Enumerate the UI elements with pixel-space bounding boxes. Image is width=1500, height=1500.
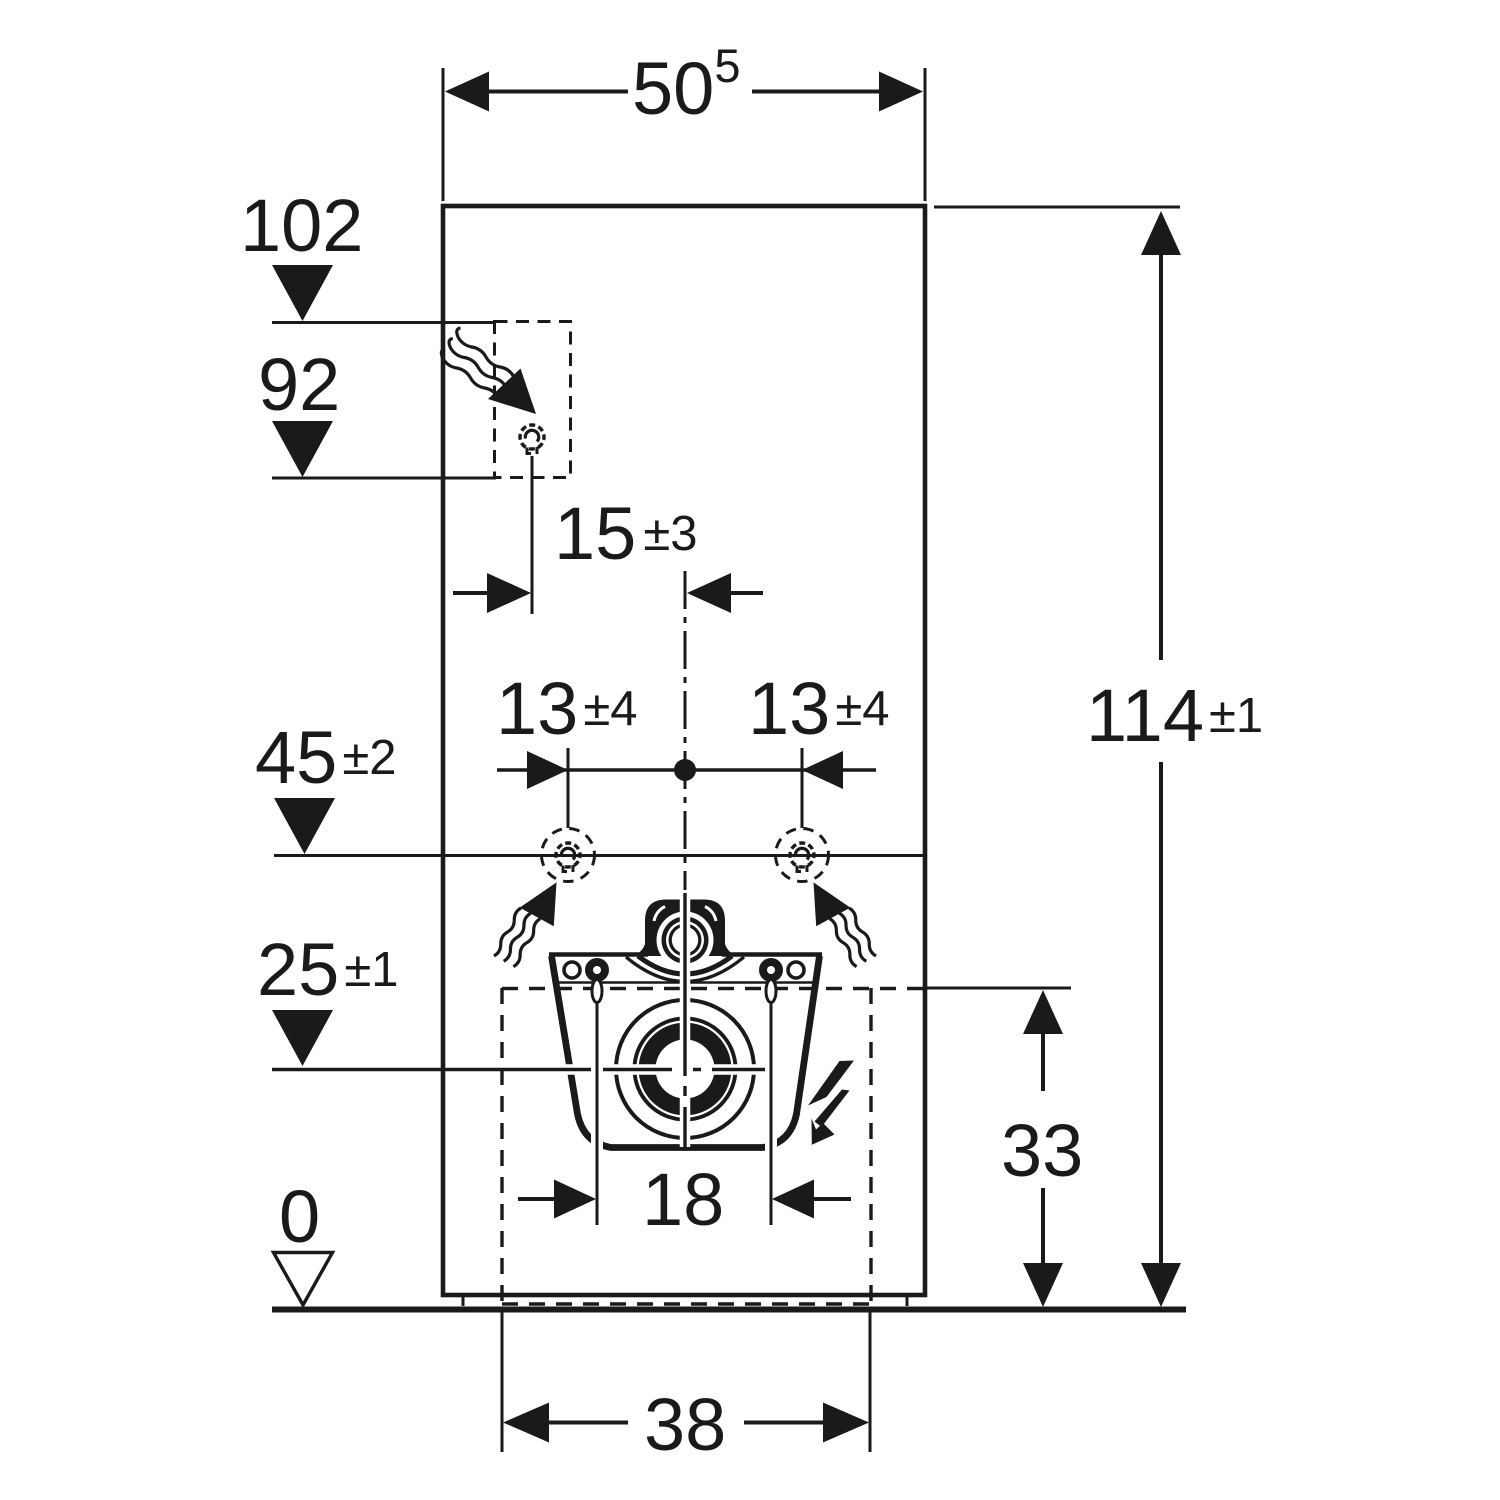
tick 18 right casing bbox=[765, 1002, 777, 1225]
dimension 33 arrow bottom bbox=[1023, 1263, 1063, 1307]
crosshair horizontal (25 level line) bbox=[272, 1068, 770, 1071]
toilet bracket top edge left bbox=[549, 952, 648, 957]
big dashed box top edge bbox=[502, 987, 925, 990]
flush pipe hat highlight left bbox=[654, 907, 665, 922]
valve icon right bbox=[790, 843, 814, 872]
dimension 18 arrow left bbox=[554, 1180, 596, 1219]
dimension 15 line left tail bbox=[453, 591, 489, 595]
dimension 114 extension line top bbox=[934, 206, 1180, 209]
dimension 38 arrow left bbox=[503, 1403, 549, 1443]
big dashed box bottom edge bbox=[502, 1302, 871, 1305]
drain ring inner white line bbox=[638, 1022, 733, 1117]
svg-text:33: 33 bbox=[1001, 1109, 1083, 1192]
dimension 114 line bbox=[1159, 253, 1163, 1265]
water squiggles lower right bbox=[849, 908, 876, 956]
tick 18 left casing bbox=[591, 1002, 603, 1225]
drain outer circle bbox=[616, 1000, 754, 1138]
toilet bracket top edge right bbox=[722, 952, 822, 957]
dimension 18 arrow right bbox=[772, 1180, 814, 1219]
water arrow lower left bbox=[520, 882, 557, 926]
hanger loop right bbox=[766, 980, 776, 1003]
level 45 marker triangle bbox=[274, 798, 335, 854]
crosshair vertical casing bbox=[680, 893, 691, 1147]
level 92 marker triangle bbox=[272, 421, 333, 477]
dimension 15 arrow right bbox=[687, 573, 731, 613]
centerline (dash-dot) bbox=[684, 571, 687, 890]
drain center white bbox=[656, 1040, 715, 1099]
water connector dashed circle right bbox=[776, 829, 829, 882]
dimension 50.5 extension line right bbox=[924, 68, 927, 201]
water arrow lower right bbox=[814, 882, 851, 926]
dimension 38 extension line left bbox=[501, 1312, 504, 1452]
svg-text:38: 38 bbox=[644, 1383, 726, 1466]
flush pipe hat highlight right bbox=[705, 907, 716, 922]
toilet bracket inner line bbox=[553, 981, 816, 984]
level 102 marker triangle bbox=[272, 265, 333, 321]
mounting hole donut right bbox=[759, 958, 783, 982]
module plinth right bbox=[906, 1295, 909, 1306]
dimension 13 tick right bbox=[801, 748, 804, 828]
dimension 50.5 line bbox=[489, 90, 879, 94]
dimension 15 line right tail bbox=[731, 591, 763, 595]
dimension 50.5 extension line left bbox=[442, 68, 445, 201]
svg-text:18: 18 bbox=[642, 1158, 724, 1241]
dimension 38 arrow right bbox=[823, 1403, 869, 1443]
top water supply dashed box bbox=[495, 322, 571, 478]
dimension 33 extension line bbox=[925, 987, 1071, 990]
dimension 13 arrow right bbox=[802, 751, 843, 789]
mounting hole open circle far right bbox=[788, 962, 804, 978]
hat flare right bbox=[725, 944, 738, 957]
top water supply drop line bbox=[531, 456, 534, 614]
dimension 114 arrow bottom bbox=[1141, 1263, 1181, 1307]
ground line bbox=[272, 1307, 1186, 1313]
big dashed box left edge bbox=[500, 988, 503, 1306]
dimension 38 extension line right bbox=[869, 1312, 872, 1452]
flush pipe hat bbox=[645, 900, 725, 957]
level 92 line bbox=[272, 477, 496, 480]
tick 18 right bbox=[770, 985, 773, 1225]
water arrow top (into box) bbox=[488, 369, 536, 415]
drain ring bbox=[633, 1017, 738, 1122]
node dot on centerline bbox=[674, 759, 696, 781]
mounting hole donut left bbox=[585, 958, 609, 982]
svg-text:0: 0 bbox=[279, 1175, 320, 1258]
crosshair vertical bbox=[683, 893, 686, 1147]
tick 18 left bbox=[596, 985, 599, 1225]
valve icon left bbox=[556, 843, 580, 872]
module plinth left bbox=[462, 1295, 465, 1306]
svg-text:92: 92 bbox=[258, 343, 340, 426]
mounting hole open circle far left bbox=[564, 962, 580, 978]
electric connection lightning bolt bbox=[808, 1061, 854, 1106]
flush seal lower arc bbox=[626, 957, 744, 982]
dimension 33 arrow top bbox=[1023, 990, 1063, 1034]
level 45 line bbox=[274, 854, 923, 857]
dimension 33 line bbox=[1041, 1032, 1045, 1265]
dimension 50.5 arrow left bbox=[445, 72, 489, 112]
dimension 38 line bbox=[548, 1421, 824, 1425]
water connector dashed circle left bbox=[542, 829, 595, 882]
dimension 18 line left tail bbox=[518, 1197, 556, 1201]
dimension 18 line right tail bbox=[812, 1197, 851, 1201]
valve icon top bbox=[520, 425, 544, 454]
dimension 50.5 arrow right bbox=[879, 72, 923, 112]
water squiggles lower left bbox=[494, 908, 521, 956]
toilet bracket bowl outline bbox=[552, 956, 820, 1148]
level 102 line bbox=[272, 321, 496, 324]
dimension 13 tick left bbox=[567, 748, 570, 828]
big dashed box right edge bbox=[869, 988, 872, 1306]
module outline bbox=[443, 206, 925, 1295]
flush seal upper arc bbox=[638, 956, 732, 974]
level 25 marker triangle bbox=[272, 1010, 333, 1066]
dimension 13 arrow left bbox=[527, 751, 568, 789]
hanger loop left bbox=[592, 980, 602, 1003]
dimension 13 line bbox=[497, 768, 876, 771]
level 0 marker triangle (hollow) bbox=[274, 1253, 333, 1306]
dimension 15 arrow left bbox=[487, 573, 531, 613]
svg-text:102: 102 bbox=[240, 184, 363, 267]
hat flare left bbox=[632, 944, 645, 957]
crosshair horizontal casing bbox=[545, 1064, 773, 1075]
dimension 114 arrow top bbox=[1141, 211, 1181, 255]
flush pipe rings (concentric) bbox=[657, 912, 714, 969]
water squiggles top bbox=[457, 328, 514, 377]
